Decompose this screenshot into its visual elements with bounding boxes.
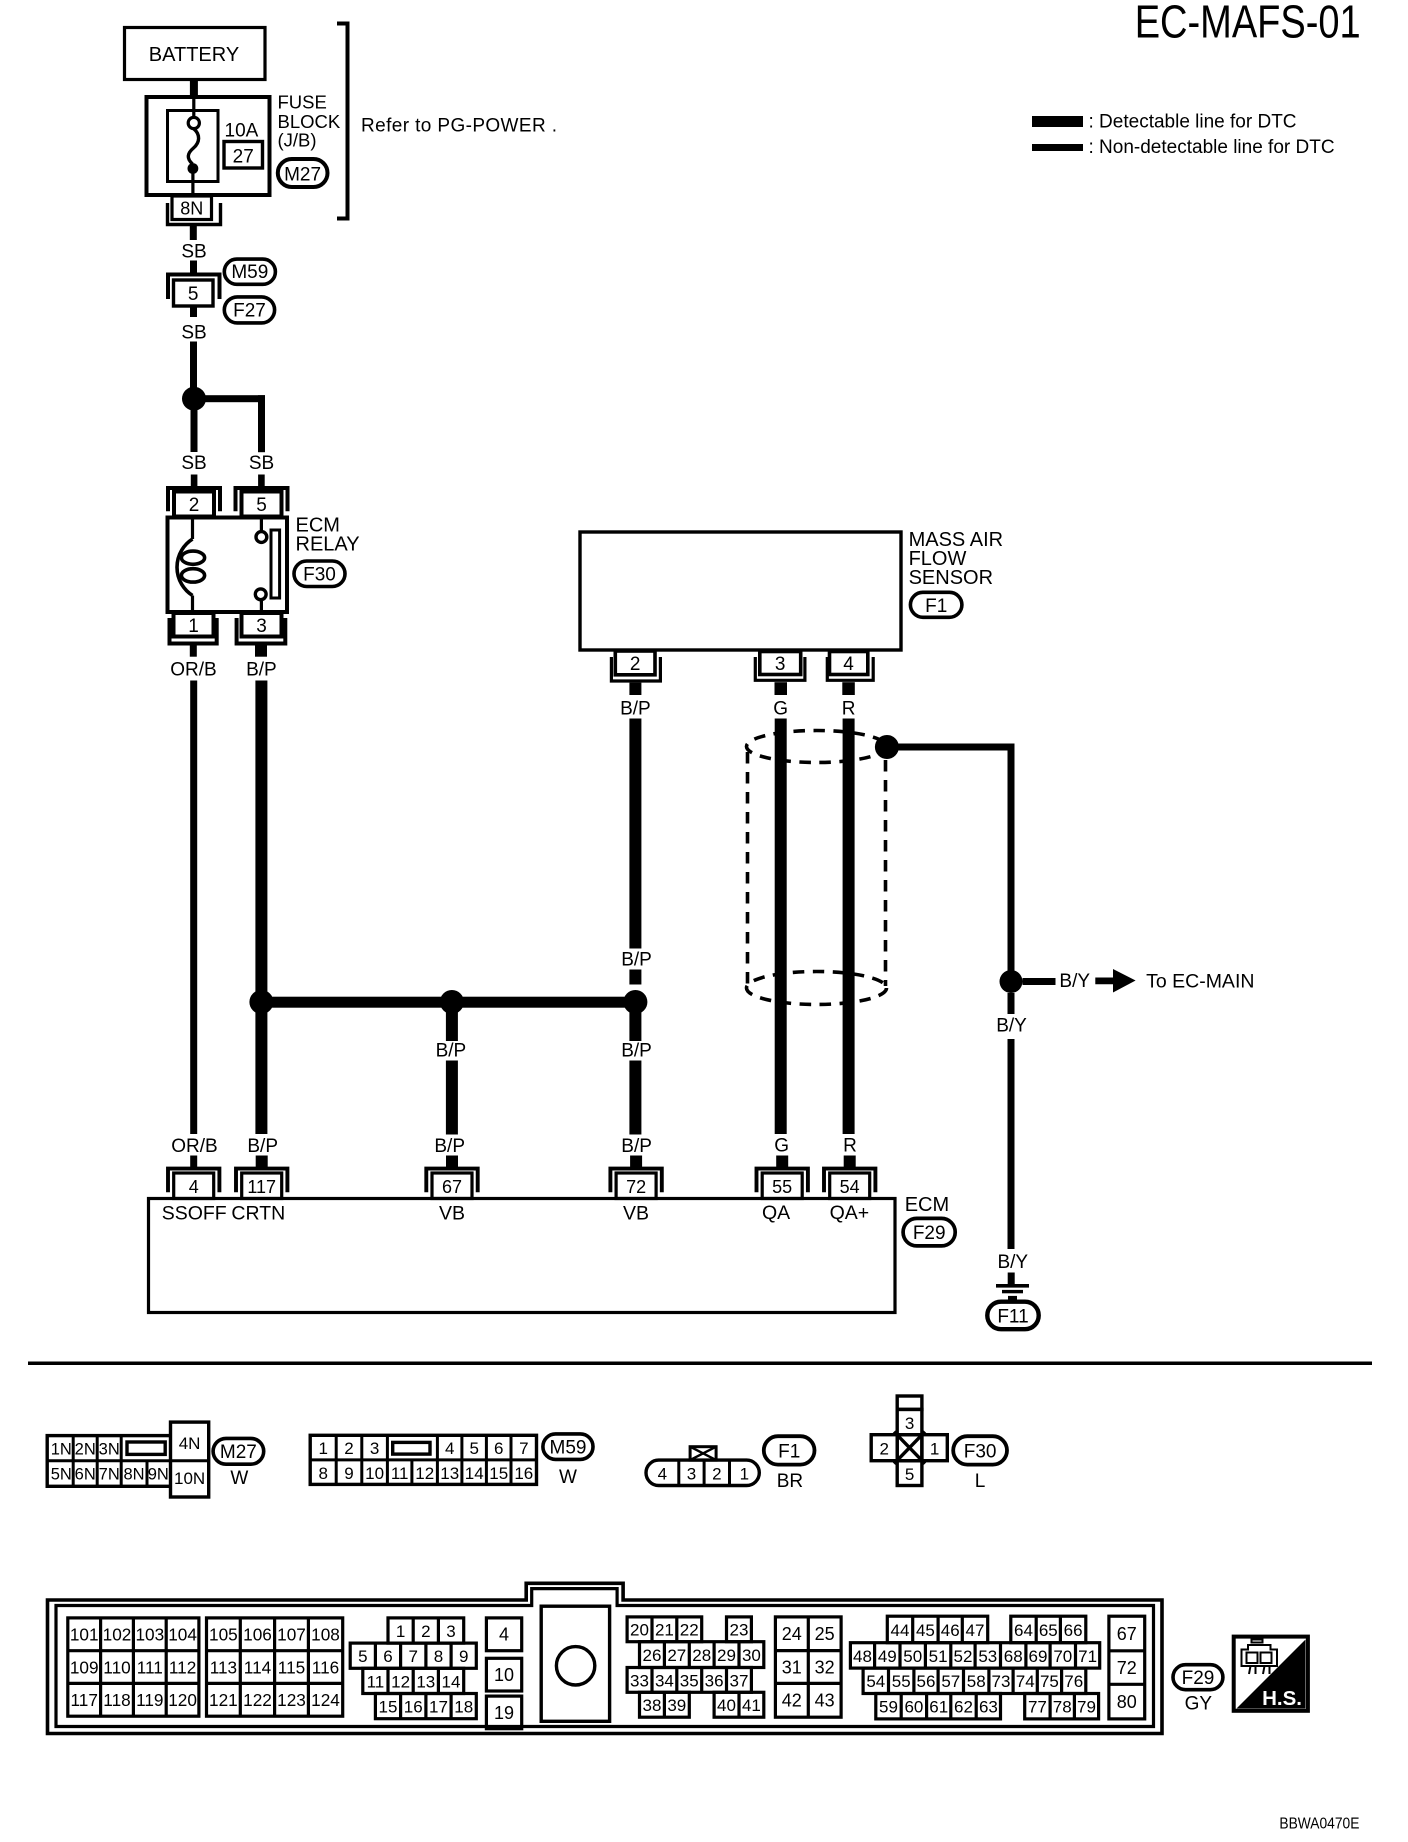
svg-text:115: 115: [278, 1658, 305, 1678]
svg-text:67: 67: [1117, 1624, 1137, 1644]
svg-text:104: 104: [168, 1625, 197, 1645]
svg-text:1: 1: [740, 1464, 749, 1483]
ECM pin name CRTN: [231, 1203, 285, 1225]
svg-text:67: 67: [442, 1177, 462, 1197]
connector color label W: [559, 1467, 577, 1488]
wire label B/P above ECM pin 117: [247, 1136, 278, 1157]
figure code BBWA0470E: [1279, 1816, 1359, 1833]
svg-text:B/Y: B/Y: [996, 1016, 1027, 1037]
svg-text:27: 27: [667, 1646, 686, 1665]
svg-text:60: 60: [904, 1698, 923, 1717]
svg-text:68: 68: [1004, 1647, 1023, 1666]
svg-text:B/P: B/P: [621, 1041, 652, 1062]
wire label OR/B: [170, 660, 216, 681]
svg-text:F29: F29: [913, 1223, 946, 1244]
svg-text:10A: 10A: [225, 121, 259, 142]
svg-text:24: 24: [782, 1624, 802, 1644]
connector oval M59: [224, 259, 275, 284]
ECM connector pins 77-79: [1025, 1694, 1099, 1719]
wire branch to right (SB): [194, 395, 265, 402]
svg-text:SB: SB: [249, 453, 274, 474]
svg-text:W: W: [230, 1468, 248, 1489]
svg-text:70: 70: [1053, 1647, 1072, 1666]
svg-text:40: 40: [717, 1696, 736, 1715]
wire B/P MAFS pin2 down: [629, 719, 641, 949]
ECM pin name VB (pin 72): [623, 1203, 649, 1225]
svg-text:63: 63: [979, 1698, 998, 1717]
wire stub below relay pin 3 (B/P): [255, 645, 267, 657]
svg-text:9: 9: [344, 1464, 353, 1483]
svg-text:SENSOR: SENSOR: [909, 567, 993, 589]
svg-text:M59: M59: [550, 1437, 587, 1458]
wire label SB: [181, 242, 206, 263]
svg-text:15: 15: [489, 1464, 508, 1483]
legend: detectable line for DTC (thick bar): [1032, 112, 1297, 133]
svg-text:34: 34: [655, 1671, 674, 1690]
junction dot B (pin117 column): [249, 990, 273, 1014]
svg-text:G: G: [774, 1136, 789, 1157]
svg-text:17: 17: [429, 1698, 448, 1717]
svg-text:77: 77: [1028, 1698, 1047, 1717]
svg-text:F30: F30: [964, 1442, 997, 1463]
ECM connector pin 19: [486, 1696, 521, 1729]
svg-text:13: 13: [416, 1672, 435, 1691]
svg-text:B/P: B/P: [621, 950, 652, 971]
junction dot SB split: [182, 387, 206, 411]
svg-text:37: 37: [730, 1671, 749, 1690]
svg-text:ECM: ECM: [905, 1194, 949, 1216]
wire shield drain vertical down (B/Y): [1008, 747, 1015, 981]
ECM connector pins 67 72 80: [1109, 1616, 1145, 1719]
fuse 10A 27 symbol: [168, 98, 219, 196]
svg-text:3: 3: [687, 1464, 696, 1483]
svg-text:28: 28: [692, 1646, 711, 1665]
wire G MAFS pin3 to ECM pin 55: [775, 719, 787, 1135]
fuse number box 27: [224, 142, 263, 169]
svg-text:GY: GY: [1185, 1694, 1213, 1715]
svg-text:45: 45: [916, 1621, 935, 1640]
svg-text:18: 18: [454, 1698, 473, 1717]
junction dot B/Y: [1000, 970, 1023, 993]
svg-text:1: 1: [930, 1439, 939, 1458]
wire label R above ECM pin 54: [843, 1136, 857, 1157]
svg-text:124: 124: [311, 1690, 340, 1710]
svg-text:B/Y: B/Y: [1059, 971, 1090, 992]
svg-text:5: 5: [905, 1465, 914, 1484]
legend: non-detectable line for DTC (thin bar): [1032, 137, 1335, 158]
svg-text:1: 1: [318, 1439, 327, 1458]
bracket for fuse block reference: [337, 24, 348, 219]
svg-text:32: 32: [815, 1657, 835, 1677]
svg-text:R: R: [843, 1136, 857, 1157]
svg-text:B/P: B/P: [247, 1136, 278, 1157]
wire label B/Y (horizontal): [1059, 971, 1090, 992]
svg-text:1N: 1N: [51, 1440, 72, 1458]
ECM connector pins 26-30: [640, 1642, 764, 1668]
svg-text:4N: 4N: [179, 1434, 201, 1453]
wire stub below MAFS pin 2 (B/P): [629, 683, 641, 695]
svg-text:65: 65: [1039, 1621, 1058, 1640]
svg-text:80: 80: [1117, 1692, 1137, 1712]
svg-text:4: 4: [658, 1464, 667, 1483]
junction dot C (pin67 column): [440, 990, 464, 1014]
svg-text:1: 1: [396, 1622, 405, 1641]
wire label SB (left): [181, 453, 206, 474]
wire B/P label to label (pin67 column): [446, 1061, 458, 1135]
svg-text:102: 102: [103, 1625, 132, 1645]
svg-text:72: 72: [1117, 1658, 1137, 1678]
svg-text:79: 79: [1077, 1698, 1096, 1717]
svg-text:58: 58: [967, 1672, 986, 1691]
svg-text:15: 15: [379, 1698, 398, 1717]
svg-text:SB: SB: [181, 453, 206, 474]
wire branch corner down (SB): [258, 395, 265, 452]
svg-text:6: 6: [383, 1647, 392, 1666]
ECM connector pins 11-14: [363, 1668, 464, 1693]
svg-text:5: 5: [469, 1439, 478, 1458]
svg-text:SB: SB: [181, 323, 206, 344]
svg-text:F30: F30: [303, 565, 336, 586]
svg-text:FUSE: FUSE: [278, 92, 327, 113]
connector color label BR: [777, 1471, 803, 1492]
ECM connector pins 54-58 73-76: [863, 1668, 1086, 1693]
ECM connector F29 outer shell: [48, 1583, 1163, 1733]
wire B/P bus to label (pin72 column): [629, 1002, 641, 1041]
svg-text:74: 74: [1016, 1672, 1035, 1691]
svg-text:75: 75: [1040, 1672, 1059, 1691]
svg-text:2: 2: [421, 1622, 430, 1641]
svg-text:106: 106: [243, 1625, 272, 1645]
fuse block label FUSE BLOCK (J/B): [278, 92, 341, 151]
svg-text:52: 52: [954, 1647, 973, 1666]
svg-text:105: 105: [209, 1625, 238, 1645]
svg-text:123: 123: [277, 1690, 306, 1710]
connector oval M27 (bottom): [213, 1438, 264, 1464]
svg-text:112: 112: [169, 1658, 196, 1678]
svg-text:47: 47: [966, 1621, 985, 1640]
ECM pin 55 connector: [757, 1156, 808, 1199]
wire stub below relay pin 1 (OR/B): [190, 645, 197, 657]
wire B/Y down to ground: [1008, 993, 1015, 1249]
svg-text:BR: BR: [777, 1471, 803, 1492]
svg-text:5: 5: [358, 1647, 367, 1666]
svg-text:6N: 6N: [75, 1465, 96, 1483]
svg-text:44: 44: [891, 1621, 910, 1640]
wire SB down to junction: [190, 342, 197, 388]
svg-text:B/P: B/P: [434, 1136, 465, 1157]
svg-text:54: 54: [866, 1672, 885, 1691]
wire B/P bus horizontal: [261, 997, 635, 1008]
ECM connector pin 4: [486, 1618, 521, 1651]
svg-text:103: 103: [135, 1625, 164, 1645]
connector oval F30: [294, 561, 345, 587]
svg-text:12: 12: [391, 1672, 410, 1691]
svg-text:2: 2: [879, 1439, 888, 1458]
wire label B/P: [246, 660, 277, 681]
battery: [125, 28, 266, 80]
wire stub above junction D: [629, 970, 641, 985]
svg-text:1: 1: [188, 616, 199, 637]
svg-text:109: 109: [70, 1658, 99, 1678]
svg-text:B/P: B/P: [436, 1041, 467, 1062]
svg-text:3: 3: [775, 654, 786, 675]
svg-text:G: G: [773, 699, 788, 720]
ECM connector pins 33-37: [627, 1668, 751, 1693]
svg-text:10: 10: [365, 1464, 384, 1483]
connector oval F27: [224, 297, 274, 323]
svg-text:38: 38: [643, 1696, 662, 1715]
wire B/P bus to label (pin67 column): [446, 1002, 458, 1041]
svg-text:72: 72: [626, 1177, 646, 1197]
wire stub above connector 5 (SB): [190, 261, 197, 274]
ECM pin 72 connector: [610, 1156, 661, 1199]
svg-text:3: 3: [370, 1439, 379, 1458]
svg-text:4: 4: [445, 1439, 454, 1458]
MAFS label: [909, 529, 1003, 589]
junction dot on shield: [875, 735, 899, 759]
svg-text:41: 41: [742, 1696, 761, 1715]
connector M27 pin grid: [47, 1422, 209, 1497]
svg-text:48: 48: [853, 1647, 872, 1666]
fuse block (J/B) M27 outline: [147, 97, 270, 195]
relay contact: [255, 518, 279, 612]
svg-text:49: 49: [878, 1647, 897, 1666]
wire label B/P above ECM pin 67: [434, 1136, 465, 1157]
relay pin 1 connector: [170, 613, 217, 644]
svg-text:61: 61: [929, 1698, 948, 1717]
svg-text:76: 76: [1064, 1672, 1083, 1691]
ECM connector pins 101-104 109-112 117-120: [68, 1618, 199, 1716]
svg-text:36: 36: [705, 1671, 724, 1690]
svg-text:117: 117: [247, 1177, 276, 1197]
relay pin 5 connector: [236, 488, 288, 517]
ECM connector pins 24 25 31 32 42 43: [775, 1617, 841, 1717]
svg-text:73: 73: [992, 1672, 1011, 1691]
ground symbol: [996, 1284, 1029, 1300]
connector M59 pin grid: [310, 1435, 536, 1484]
ECM connector pins 1-3: [388, 1618, 464, 1643]
svg-text:13: 13: [440, 1464, 459, 1483]
label To EC-MAIN: [1146, 970, 1254, 992]
svg-text:14: 14: [465, 1464, 484, 1483]
svg-text:F29: F29: [1182, 1668, 1215, 1689]
svg-text:101: 101: [70, 1625, 99, 1645]
svg-text:121: 121: [209, 1690, 238, 1710]
svg-text:55: 55: [772, 1177, 792, 1197]
svg-text:5: 5: [188, 284, 199, 305]
wire: battery to fuse block (SB): [190, 79, 198, 98]
ECM pin 117 connector: [236, 1156, 287, 1199]
wire R MAFS pin4 to ECM pin 54: [843, 719, 855, 1135]
svg-text:39: 39: [667, 1696, 686, 1715]
ECM connector pins 15-18: [375, 1694, 476, 1719]
svg-text:116: 116: [312, 1658, 339, 1678]
ECM connector pins 48-53 68-71: [850, 1643, 1099, 1668]
svg-text:16: 16: [404, 1698, 423, 1717]
svg-text:30: 30: [742, 1646, 761, 1665]
connector oval F1 (bottom): [764, 1436, 815, 1464]
svg-text:50: 50: [903, 1647, 922, 1666]
svg-text:(J/B): (J/B): [278, 130, 317, 151]
connector F1 pin capsule: [646, 1447, 759, 1486]
svg-text:62: 62: [954, 1698, 973, 1717]
svg-text:BATTERY: BATTERY: [149, 44, 239, 66]
shield cylinder bottom ellipse (dashed): [747, 972, 887, 1005]
ECM connector pin 10: [486, 1658, 521, 1691]
ECM label: [905, 1194, 949, 1216]
shield cylinder top ellipse (dashed): [747, 731, 887, 763]
svg-text:3: 3: [446, 1622, 455, 1641]
svg-text:OR/B: OR/B: [171, 1136, 217, 1157]
wire label SB (right): [249, 453, 274, 474]
ECM pin name QA: [762, 1202, 790, 1224]
svg-text:CRTN: CRTN: [231, 1203, 285, 1225]
svg-text:9: 9: [459, 1647, 468, 1666]
diagram title EC-MAFS-01: [1135, 0, 1361, 48]
svg-text:B/P: B/P: [621, 1136, 652, 1157]
svg-text:SSOFF: SSOFF: [162, 1203, 227, 1225]
svg-text:26: 26: [643, 1646, 662, 1665]
svg-text:F27: F27: [233, 301, 266, 322]
wire stub below 8N (SB): [190, 226, 197, 240]
wire B/P relay pin3 to ECM pin 117: [255, 681, 267, 1135]
wire stub below MAFS pin 3 (G): [775, 682, 788, 695]
svg-text:QA: QA: [762, 1202, 790, 1224]
connector oval F29 (bottom): [1173, 1665, 1223, 1690]
svg-text:M27: M27: [284, 165, 321, 186]
svg-text:107: 107: [277, 1625, 306, 1645]
svg-text:12: 12: [415, 1464, 434, 1483]
svg-text:B/P: B/P: [246, 660, 277, 681]
connector oval F11 (ground): [987, 1302, 1038, 1330]
svg-text:4: 4: [499, 1625, 509, 1645]
ECM pin 54 connector: [824, 1156, 875, 1199]
svg-text:19: 19: [494, 1703, 514, 1723]
svg-text:6: 6: [494, 1439, 503, 1458]
svg-text:To EC-MAIN: To EC-MAIN: [1146, 970, 1254, 992]
svg-text:8N: 8N: [123, 1465, 144, 1483]
svg-text:119: 119: [136, 1690, 163, 1710]
arrow to EC-MAIN: [1095, 969, 1135, 993]
ECM connector pins 20-22: [627, 1617, 702, 1642]
svg-text:118: 118: [103, 1690, 130, 1710]
connector oval F30 (bottom): [953, 1436, 1007, 1464]
svg-text:RELAY: RELAY: [296, 534, 360, 556]
svg-text:8: 8: [434, 1647, 443, 1666]
wire label B/Y below junction: [996, 1016, 1027, 1037]
svg-text:M59: M59: [231, 262, 268, 283]
svg-text:7: 7: [519, 1439, 528, 1458]
wire OR/B relay pin1 to ECM pin 4: [190, 681, 197, 1135]
svg-text:78: 78: [1053, 1698, 1072, 1717]
wire label G: [773, 699, 788, 720]
ECM pin name QA+: [830, 1202, 870, 1224]
connector oval F29: [903, 1218, 955, 1246]
svg-text:3: 3: [256, 616, 267, 637]
wire label B/P above ECM pin 72: [621, 1136, 652, 1157]
svg-text:8: 8: [318, 1464, 327, 1483]
svg-text:3N: 3N: [99, 1440, 120, 1458]
shield cylinder right side (dashed): [884, 760, 888, 986]
svg-text:16: 16: [514, 1464, 533, 1483]
svg-text:5N: 5N: [51, 1465, 72, 1483]
ECM connector pins 44-47: [887, 1616, 987, 1643]
ECM connector pins 38-39: [640, 1692, 690, 1717]
svg-text:21: 21: [655, 1621, 674, 1640]
svg-text:11: 11: [367, 1672, 385, 1691]
svg-text:M27: M27: [220, 1442, 257, 1463]
svg-text:114: 114: [244, 1658, 272, 1678]
ECM pin name VB (pin 67): [439, 1203, 465, 1225]
connector oval F1: [910, 592, 962, 617]
svg-text:5: 5: [256, 495, 267, 516]
ECM connector pins 59-63: [876, 1694, 1001, 1719]
wire label B/P (pin72 column): [621, 1041, 652, 1062]
svg-text:R: R: [842, 699, 856, 720]
svg-text:56: 56: [917, 1672, 936, 1691]
svg-text:33: 33: [630, 1671, 649, 1690]
ECM pin 4 connector: [168, 1156, 219, 1199]
wire B/P label to label (pin72 column): [629, 1061, 641, 1135]
svg-text:22: 22: [680, 1621, 699, 1640]
svg-text:51: 51: [929, 1647, 948, 1666]
svg-text:4: 4: [189, 1177, 199, 1197]
wire stub into relay pin 2: [191, 475, 198, 487]
ECM connector pins 40-41: [714, 1692, 764, 1717]
wire stub into relay pin 5: [258, 475, 265, 487]
svg-text:71: 71: [1078, 1647, 1097, 1666]
ECM connector pin 23: [727, 1617, 752, 1642]
fuse value label 10A: [225, 121, 259, 142]
svg-text:46: 46: [941, 1621, 960, 1640]
svg-text:59: 59: [879, 1698, 898, 1717]
svg-text:: Non-detectable line for DTC: : Non-detectable line for DTC: [1089, 137, 1335, 158]
svg-text:7: 7: [408, 1647, 417, 1666]
wire label G above ECM pin 55: [774, 1136, 789, 1157]
svg-text:111: 111: [137, 1658, 163, 1678]
svg-text:57: 57: [941, 1672, 960, 1691]
svg-text:SB: SB: [181, 242, 206, 263]
ECM body F29: [149, 1199, 896, 1313]
svg-text:B/Y: B/Y: [997, 1252, 1028, 1273]
H.S. harness symbol: [1234, 1637, 1308, 1711]
svg-text:27: 27: [233, 147, 254, 168]
relay label ECM RELAY: [296, 515, 360, 556]
svg-text:: Detectable line for DTC: : Detectable line for DTC: [1089, 112, 1297, 133]
svg-text:120: 120: [168, 1690, 197, 1710]
mass air flow sensor body F1: [580, 532, 901, 650]
wire label SB: [181, 323, 206, 344]
ECM pin name SSOFF: [162, 1203, 227, 1225]
wire shield drain horizontal (B/Y): [887, 744, 1015, 751]
horizontal separator line: [28, 1362, 1372, 1366]
wire SB down to relay pin 2: [191, 410, 198, 452]
svg-text:4: 4: [843, 654, 854, 675]
connector color label L: [975, 1471, 986, 1492]
ECM relay body F30: [168, 518, 288, 613]
svg-text:11: 11: [391, 1464, 409, 1483]
svg-text:53: 53: [978, 1647, 997, 1666]
svg-text:F1: F1: [778, 1442, 800, 1463]
svg-text:25: 25: [815, 1624, 835, 1644]
svg-text:2: 2: [712, 1464, 721, 1483]
svg-text:54: 54: [840, 1177, 860, 1197]
svg-text:14: 14: [442, 1672, 461, 1691]
svg-text:F11: F11: [997, 1307, 1028, 1328]
svg-text:110: 110: [103, 1658, 130, 1678]
svg-text:VB: VB: [439, 1203, 465, 1225]
note: Refer to PG-POWER: [361, 116, 557, 137]
